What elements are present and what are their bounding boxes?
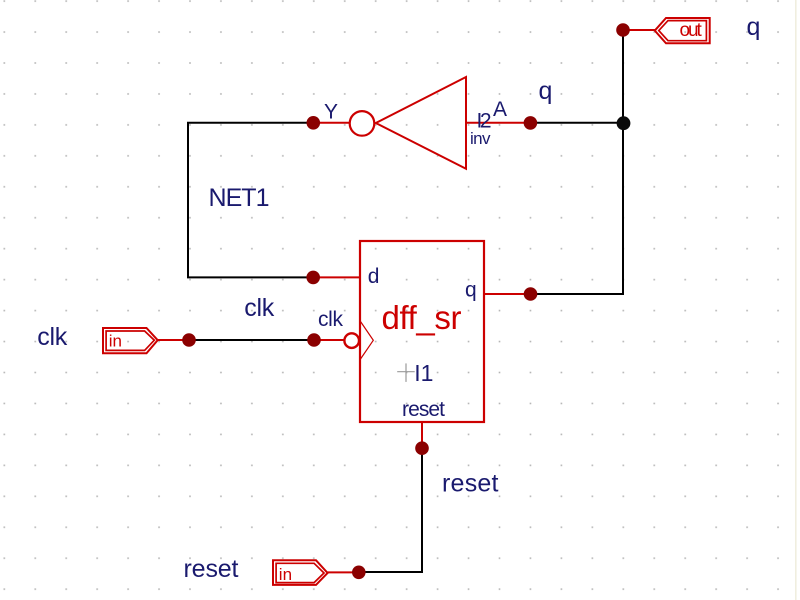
port out symbol [655,18,710,43]
pin dot q of I1 [524,287,538,301]
pin dot of port in reset [352,566,366,580]
inverter I2 body [350,77,466,169]
svg-text:in: in [279,565,292,584]
wire stub of port out [623,29,655,31]
svg-text:q: q [465,279,477,302]
clk bubble of I1 [344,333,359,348]
wire q tap (inverter A input) [531,122,625,124]
wire stub clk pin of I1 [314,339,344,341]
pin dot of port out [616,23,630,37]
flip-flop I1 dff_sr body [360,241,484,422]
svg-text:I1: I1 [414,360,433,386]
svg-text:clk: clk [244,294,274,322]
wire reset (dff reset pin down and left to in port) [359,448,422,572]
svg-text:NET1: NET1 [209,184,270,212]
svg-text:q: q [539,77,553,105]
svg-text:reset: reset [402,398,445,421]
pin dot reset of I1 [415,441,429,455]
svg-text:reset: reset [184,555,239,583]
wire stub of port in (reset) [328,571,359,573]
pin dot d of I1 [306,271,320,285]
wire clk (in port to dff clk pin) [189,339,314,341]
pin dot Y of I2 [307,116,321,130]
wire stub d pin of I1 [313,276,360,278]
svg-text:in: in [109,332,122,351]
clk chevron of I1 [361,322,374,360]
wire stub of port in (clk) [158,339,189,341]
pin dot A of I2 [524,116,538,130]
svg-text:reset: reset [442,470,499,498]
port in (reset) symbol [273,560,328,585]
wire NET1 (inverter Y output loop to dff d input) [188,123,313,278]
wire stub reset pin of I1 [421,422,423,448]
junction node q [617,116,631,130]
svg-text:d: d [368,265,380,288]
port in (clk) symbol [103,328,158,353]
svg-text:out: out [680,20,703,41]
pin dot of port in clk [182,333,196,347]
wire stub Y pin of I2 [313,122,350,124]
wire stub A pin of I2 [466,122,531,124]
svg-text:clk: clk [318,308,344,331]
wire q horizontal (dff q output) [531,293,625,295]
wire stub q pin of I1 [484,293,531,295]
svg-text:Y: Y [324,101,338,124]
svg-text:inv: inv [470,129,491,148]
svg-text:A: A [493,98,507,121]
svg-text:q: q [747,13,761,41]
window edge line [795,0,797,600]
pin dot clk of I1 [307,333,321,347]
wire q vertical (to out port) [622,30,624,294]
svg-text:dff_sr: dff_sr [382,299,462,336]
svg-text:clk: clk [37,323,68,351]
instance origin marker of I1 [397,363,415,382]
